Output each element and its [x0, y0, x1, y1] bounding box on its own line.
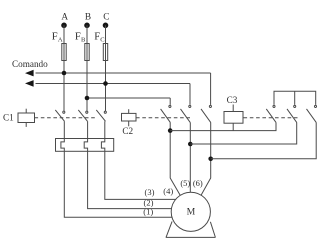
wire label (5) [180, 178, 190, 188]
wire phase B vertical from terminal to contact [86, 25, 88, 111]
wire comando line 1 drop to contact C2-3 [210, 73, 212, 105]
contactor coil C1 [18, 113, 35, 123]
svg-text:F: F [52, 32, 58, 43]
node junction phase A / line 1 [62, 71, 67, 76]
wire C3 shorting bar [274, 91, 316, 105]
wire label (2) [144, 198, 154, 208]
wire phase C vertical from terminal to contact [105, 25, 107, 111]
wire comando line 2 drop to contact C2-2 [189, 84, 191, 105]
wire motor lead 6 [199, 122, 210, 198]
svg-text:(1): (1) [143, 207, 153, 217]
contact C2-1 [169, 105, 171, 107]
svg-text:(4): (4) [163, 186, 173, 196]
svg-text:C: C [100, 37, 104, 44]
mechanical link dashed C3 [244, 117, 299, 119]
wire label (4) [163, 186, 173, 196]
svg-text:(6): (6) [193, 178, 203, 188]
contact C3-2 [294, 105, 296, 107]
wire star link 2 to contact C3-2 [190, 122, 296, 144]
contact C1-a [63, 111, 65, 113]
fuse FA label [52, 32, 63, 44]
contactor coil C1 label [3, 113, 14, 123]
wire label (3) [145, 187, 155, 197]
node C terminal dot [103, 23, 109, 29]
node junction phase C / line 2 [103, 81, 108, 86]
svg-text:(5): (5) [180, 178, 190, 188]
motor base [166, 221, 172, 237]
wire motor lead 5 [189, 122, 191, 196]
svg-text:A: A [58, 37, 63, 44]
wire phase C lower run to motor terminal 3 [101, 121, 191, 199]
svg-text:M: M [187, 207, 196, 218]
svg-text:Comando: Comando [12, 59, 48, 69]
wire label (6) [193, 178, 203, 188]
svg-text:A: A [61, 12, 68, 22]
node junction lead 4 / star line 1 [168, 128, 173, 133]
contact C3-1 [273, 105, 275, 107]
wire star link 1 to contact C3-1 [170, 122, 276, 130]
node A terminal label [61, 12, 68, 22]
contactor coil C2 label [122, 126, 133, 136]
contact C2-3 [209, 105, 211, 107]
Comando label [12, 59, 48, 69]
svg-text:B: B [85, 12, 91, 22]
wire motor lead 4 [170, 122, 182, 198]
fuse FC label [94, 32, 104, 44]
wire phase A lower run to motor terminal 1 [61, 121, 191, 217]
fuse FC [103, 44, 107, 61]
contact C3-3 [314, 105, 316, 107]
node B terminal dot [84, 23, 90, 29]
contact C1-b [86, 111, 88, 113]
node junction lead 5 / star line 2 [188, 142, 193, 147]
svg-text:C2: C2 [122, 126, 133, 136]
svg-text:F: F [75, 32, 81, 43]
wire phase A vertical from terminal to contact [63, 25, 65, 111]
wire comando line 1 with arrowhead [25, 70, 34, 77]
motor M body [171, 192, 210, 231]
wire comando line 2 with arrowhead [25, 80, 34, 87]
svg-text:B: B [81, 37, 86, 44]
motor M label [187, 207, 196, 218]
node B terminal label [85, 12, 91, 22]
contactor coil C2 [122, 113, 137, 121]
svg-text:C3: C3 [227, 95, 238, 105]
mechanical link dashed C1 [35, 117, 97, 119]
contactor coil C3 label [227, 95, 238, 105]
wire line 3 from phase B to contact C2-1 [87, 97, 170, 99]
node C terminal label [103, 12, 109, 22]
node A terminal dot [61, 23, 67, 29]
contactor coil C3 [224, 112, 243, 124]
contact C2-2 [189, 105, 191, 107]
svg-text:C: C [103, 12, 109, 22]
overload relay box [56, 139, 114, 152]
fuse FB [85, 44, 89, 61]
wire phase B lower run to motor terminal 2 [84, 121, 191, 208]
node junction phase B / line 3 [85, 96, 90, 101]
wire label (1) [143, 207, 153, 217]
fuse FA [62, 44, 66, 61]
contact C1-c [104, 111, 106, 113]
fuse FB label [75, 32, 86, 44]
svg-text:(3): (3) [145, 187, 155, 197]
wire star link 3 to contact C3-3 [211, 122, 317, 158]
mechanical link dashed C2 [136, 117, 191, 119]
node junction lead 6 / star line 3 [208, 157, 213, 162]
svg-text:C1: C1 [3, 113, 14, 123]
